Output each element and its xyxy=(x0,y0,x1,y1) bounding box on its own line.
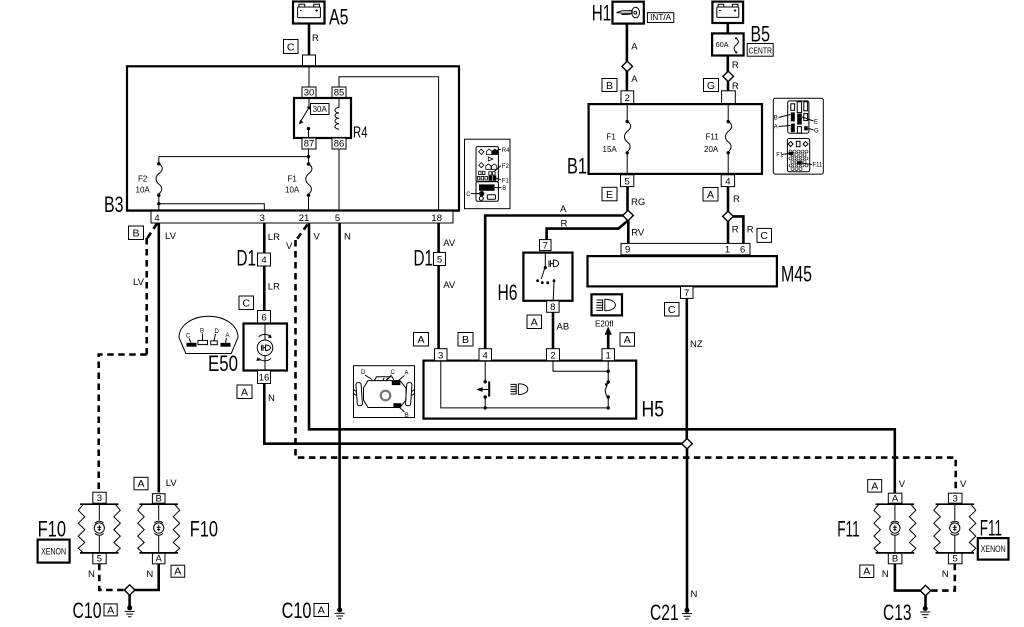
wire N from E50 to splice xyxy=(264,384,682,444)
svg-text:3: 3 xyxy=(97,493,102,504)
svg-text:A: A xyxy=(892,493,899,504)
svg-text:C: C xyxy=(242,298,250,310)
wire AV from D1 to H5 pin 3 xyxy=(439,266,456,349)
svg-text:9: 9 xyxy=(625,244,630,255)
connector D1 pin 4 xyxy=(237,246,271,271)
svg-text:V: V xyxy=(314,232,321,243)
ignition switch H1 xyxy=(592,1,644,26)
connector B on A xyxy=(602,79,617,92)
svg-text:1: 1 xyxy=(606,350,611,361)
fuse F1 10A xyxy=(285,162,312,210)
svg-text:A: A xyxy=(624,334,631,346)
wire R from splice 2 to M45 pin 6 xyxy=(733,216,754,243)
headlamp leveling actuator E50 xyxy=(208,324,287,377)
ground C10 (lamps) xyxy=(73,595,135,623)
svg-text:C: C xyxy=(760,230,768,242)
svg-text:B1: B1 xyxy=(567,154,587,179)
svg-text:30A: 30A xyxy=(313,105,328,114)
wire: F2 to B3 pins 4 and 3 xyxy=(157,195,264,210)
fog lamp symbol E20fl with arrow xyxy=(592,294,623,328)
svg-text:V: V xyxy=(286,241,293,252)
svg-text:5: 5 xyxy=(97,554,102,565)
B1 pin 2 xyxy=(621,91,634,104)
svg-text:LR: LR xyxy=(268,282,280,293)
svg-text:R: R xyxy=(732,225,739,236)
svg-text:A: A xyxy=(417,334,424,346)
svg-text:A: A xyxy=(137,478,144,490)
fog lamp F11 xenon: pin 5 xyxy=(948,553,962,564)
svg-text:E50: E50 xyxy=(208,351,238,376)
wire R from diamond to B1 xyxy=(728,81,739,92)
svg-text:R4: R4 xyxy=(502,148,510,154)
svg-text:2: 2 xyxy=(550,350,555,361)
svg-text:R: R xyxy=(747,225,754,236)
svg-text:D1: D1 xyxy=(237,246,257,271)
B1 pin 4 xyxy=(721,175,734,188)
svg-text:16: 16 xyxy=(259,373,270,384)
connector B on wire A xyxy=(458,333,473,347)
connector A on N at F10 xyxy=(171,565,185,578)
relay pin 85 xyxy=(332,87,346,99)
splice diamond 3 (N junction) xyxy=(682,439,693,449)
battery B5 xyxy=(712,2,743,23)
wire LV solid from pin 4 to lamp F10 xyxy=(158,223,161,493)
svg-text:C: C xyxy=(466,192,471,198)
connector C on LR xyxy=(239,296,254,310)
svg-text:A: A xyxy=(531,317,538,329)
fuse box 60A (B5) xyxy=(712,22,770,56)
XENON label box (F11) xyxy=(978,538,1009,560)
fog lamp F11 xenon: pin 3 xyxy=(948,493,962,504)
relay coil xyxy=(335,98,339,129)
junction box B3 xyxy=(104,66,459,217)
svg-text:B: B xyxy=(462,334,469,346)
svg-text:XENON: XENON xyxy=(41,547,66,557)
arrow wire from H5 pin 1 to E20fl xyxy=(605,327,612,349)
svg-text:B: B xyxy=(892,554,898,565)
svg-text:N: N xyxy=(268,393,275,404)
H6 pin 8 xyxy=(547,301,560,313)
H5 interior: pin3 to bottom rail xyxy=(441,361,608,408)
svg-text:CENTR: CENTR xyxy=(748,45,772,55)
svg-text:N: N xyxy=(146,569,153,580)
wire R from splice to H6 pin 7 xyxy=(547,219,628,240)
XENON label box (F10) xyxy=(38,540,70,563)
svg-text:4: 4 xyxy=(261,255,266,266)
svg-text:4: 4 xyxy=(154,213,159,224)
svg-text:F11: F11 xyxy=(706,133,720,142)
wire label LV xyxy=(165,231,177,242)
svg-text:A: A xyxy=(174,566,181,578)
wire A from diamond to B1 pin 2 xyxy=(627,71,638,92)
svg-text:N: N xyxy=(344,232,351,243)
svg-text:B: B xyxy=(502,186,506,192)
svg-text:D1: D1 xyxy=(414,246,434,271)
wire label V at F11 xenon xyxy=(960,479,967,490)
svg-text:8: 8 xyxy=(550,302,555,313)
svg-text:H1: H1 xyxy=(592,1,612,26)
svg-text:6: 6 xyxy=(740,244,745,255)
connector A on AV xyxy=(414,333,429,347)
fuse F11 20A in B1 xyxy=(704,104,732,175)
fog lamp F11: pin A xyxy=(888,493,902,504)
wire V solid from pin 21 to lamp F11 xyxy=(309,223,895,493)
svg-text:6: 6 xyxy=(261,313,266,324)
wire AV from pin 18 to D1 xyxy=(439,223,456,253)
svg-text:H5: H5 xyxy=(642,397,665,422)
splice diamond (A/R/RG/RV) xyxy=(623,210,634,220)
svg-text:R: R xyxy=(732,60,739,71)
svg-text:N: N xyxy=(88,569,95,580)
wire N from splice 3 to ground C21 xyxy=(687,449,698,609)
svg-text:R: R xyxy=(312,33,319,44)
svg-text:LV: LV xyxy=(133,277,145,288)
svg-text:A: A xyxy=(560,204,567,215)
ground C21 xyxy=(650,600,692,625)
wire: relay pin 85 up and over to pin 18 xyxy=(339,77,439,211)
svg-text:3: 3 xyxy=(438,350,443,361)
splice diamond at ground C13 xyxy=(920,585,931,595)
wire from battery B5 to fuse xyxy=(726,23,729,34)
svg-text:R: R xyxy=(561,219,568,230)
connector A on V at F11 xyxy=(868,480,882,493)
wire label LV (dashed branch) xyxy=(133,277,145,288)
connector A on LV at F10 xyxy=(134,477,148,490)
svg-text:3: 3 xyxy=(260,213,265,224)
svg-text:18: 18 xyxy=(431,213,442,224)
relay pin 87 xyxy=(302,138,316,150)
H5 connector face illustration xyxy=(353,366,415,419)
svg-text:A: A xyxy=(774,125,778,131)
svg-text:C: C xyxy=(668,304,676,316)
connector A at ground C10 right xyxy=(314,604,329,617)
fog lamp F11 xenon xyxy=(934,504,1002,553)
svg-text:F11: F11 xyxy=(837,517,860,542)
svg-text:A: A xyxy=(107,604,114,616)
B3 bottom connector strip with pins 4 3 21 5 18 xyxy=(127,211,459,225)
wire R from splice 2 to M45 pin 1 xyxy=(728,221,739,243)
connector E on RG xyxy=(602,187,617,201)
connector A below E50 xyxy=(237,385,252,399)
svg-text:R4: R4 xyxy=(353,125,368,142)
svg-text:N: N xyxy=(882,569,889,580)
relay pin 30 xyxy=(302,87,316,99)
wire R from battery A5 to B3 xyxy=(308,23,311,56)
B1 connector pinout illustration xyxy=(773,98,823,174)
svg-text:G: G xyxy=(707,80,715,92)
svg-text:86: 86 xyxy=(334,139,345,150)
B1 pin 5 xyxy=(621,175,634,188)
30A label in R4 xyxy=(311,104,330,115)
svg-text:G: G xyxy=(814,129,819,135)
splice diamond 2 (R to M45 pins 1,6) xyxy=(723,211,734,221)
svg-text:10A: 10A xyxy=(136,186,151,195)
wire label V at F11 xyxy=(899,479,906,490)
fuse F1 15A in B1 xyxy=(603,104,631,175)
svg-text:F2: F2 xyxy=(502,164,510,170)
svg-text:R: R xyxy=(733,194,740,205)
svg-text:5: 5 xyxy=(624,176,629,187)
wire LR from D1 to E50 pin 6 xyxy=(264,266,280,311)
wire V dashed from pin 21 to xenon lamp F11 xyxy=(286,225,956,494)
wire N dashed from F11 xenon to ground C13 xyxy=(930,564,955,591)
svg-text:F1: F1 xyxy=(288,175,298,184)
ground C13 xyxy=(883,596,930,625)
svg-text:LR: LR xyxy=(268,232,280,243)
svg-text:7: 7 xyxy=(684,288,689,299)
fog lamp F10 xyxy=(138,504,218,553)
svg-text:10A: 10A xyxy=(285,186,300,195)
svg-text:5: 5 xyxy=(335,213,340,224)
wire RG from B1 pin 5 to splice xyxy=(628,187,646,211)
relay R4 xyxy=(294,98,368,142)
svg-text:C10: C10 xyxy=(282,598,312,623)
svg-text:2: 2 xyxy=(625,93,630,104)
svg-text:B3: B3 xyxy=(104,192,124,217)
svg-text:F1: F1 xyxy=(502,178,510,184)
H5 pin 4 xyxy=(479,349,492,362)
svg-text:B: B xyxy=(405,413,409,419)
wire R from fuse to diamond xyxy=(728,56,739,73)
wire NZ from M45 pin 7 to splice 3 xyxy=(687,298,703,439)
H6 pin 7 xyxy=(540,240,552,252)
H5 pin 3 xyxy=(435,349,448,362)
H5 pin 2 xyxy=(547,349,560,362)
connector C (battery feed) xyxy=(284,40,299,54)
E50 pin 16 xyxy=(258,371,271,384)
fuse box B1 xyxy=(567,104,762,178)
svg-text:M45: M45 xyxy=(781,262,812,287)
INT/A label box xyxy=(647,13,673,23)
svg-text:RG: RG xyxy=(631,197,645,208)
body computer M45 xyxy=(588,256,813,286)
svg-text:F11: F11 xyxy=(813,163,824,169)
svg-text:A: A xyxy=(631,42,638,53)
wire R from B1 pin 4 to splice 2 xyxy=(728,187,740,212)
svg-text:A: A xyxy=(241,387,248,399)
svg-text:4: 4 xyxy=(725,176,730,187)
svg-text:5: 5 xyxy=(953,554,958,565)
svg-text:B5: B5 xyxy=(751,22,771,47)
fog lamp F10 xenon xyxy=(38,504,121,553)
svg-text:E: E xyxy=(606,189,613,201)
connector A on N at F11 xyxy=(860,565,874,578)
fog lamp F11: pin B xyxy=(888,553,902,564)
svg-text:AV: AV xyxy=(443,280,456,291)
svg-text:INT/A: INT/A xyxy=(650,13,671,22)
battery A5 xyxy=(293,2,349,30)
ground C10 (pin 5 N wire) xyxy=(282,598,345,623)
svg-text:4: 4 xyxy=(483,350,488,361)
B1 entry pin box xyxy=(722,91,736,104)
svg-text:87: 87 xyxy=(304,139,315,150)
svg-text:A: A xyxy=(863,566,870,578)
svg-text:F10: F10 xyxy=(38,517,66,542)
svg-text:E20fl: E20fl xyxy=(595,320,613,329)
fog lamp F10: pin A xyxy=(152,553,165,564)
fog lamp F10 xenon: pin 3 xyxy=(93,492,106,504)
svg-text:A: A xyxy=(707,189,714,201)
connector A on arrow wire xyxy=(620,333,635,347)
svg-text:N: N xyxy=(942,569,949,580)
svg-text:N: N xyxy=(691,589,698,600)
svg-text:A: A xyxy=(156,554,163,565)
svg-text:C13: C13 xyxy=(883,600,912,625)
fog lamp F10 xenon: pin 5 xyxy=(93,553,106,564)
svg-text:LV: LV xyxy=(166,478,178,489)
wire LV dashed branch to xenon lamp F10 xyxy=(99,224,157,493)
connector C on NZ xyxy=(665,303,680,317)
svg-text:1: 1 xyxy=(725,244,730,255)
M45 top connector strip pins 9 1 6 xyxy=(621,243,750,255)
connector D1 pin 5 xyxy=(414,246,446,271)
CENTR label box xyxy=(747,44,773,57)
fog lamp switch unit H5 xyxy=(424,361,665,422)
svg-text:B: B xyxy=(132,228,139,240)
wire A from H1 to diamond xyxy=(627,24,638,62)
relay pin 86 xyxy=(332,138,346,150)
svg-text:7: 7 xyxy=(543,240,548,251)
svg-text:E: E xyxy=(814,120,818,126)
wire: pin 87 to fuses F1/F2 xyxy=(159,149,310,164)
splice diamond at ground C10 xyxy=(124,585,135,595)
svg-text:A: A xyxy=(871,480,878,492)
svg-text:XENON: XENON xyxy=(981,544,1006,554)
connector A at ground C10 xyxy=(104,604,117,617)
connector A on R xyxy=(703,188,718,202)
fuse F2 10A xyxy=(136,162,163,197)
svg-text:B: B xyxy=(774,116,778,122)
svg-text:LV: LV xyxy=(165,231,177,242)
svg-text:60A: 60A xyxy=(716,40,729,49)
svg-text:20A: 20A xyxy=(704,145,719,154)
svg-text:F1: F1 xyxy=(776,153,784,159)
fog lamp F11 xyxy=(837,504,916,553)
connector C on R xyxy=(757,228,772,242)
wire LR from pin 3 to D1 xyxy=(264,223,280,253)
svg-text:V: V xyxy=(960,479,967,490)
svg-text:C21: C21 xyxy=(650,600,679,625)
fog lamp F10: pin B xyxy=(152,494,165,505)
svg-text:3: 3 xyxy=(953,493,958,504)
svg-text:F2: F2 xyxy=(138,175,148,184)
wire label R xyxy=(312,33,319,44)
svg-text:RV: RV xyxy=(631,228,645,239)
splice diamond on R xyxy=(723,71,734,81)
wire A from splice to H5 pin 4 xyxy=(485,204,623,349)
svg-text:A: A xyxy=(318,605,325,617)
wire: B3 entry to relay pin 30 xyxy=(308,67,310,88)
svg-text:A5: A5 xyxy=(329,5,349,30)
E50 pin 6 xyxy=(258,311,271,324)
wire AB from H6 to H5 pin 2 xyxy=(553,312,569,348)
H5 interior: pin4 switch xyxy=(476,361,490,410)
wire label LV at F10 xyxy=(166,478,178,489)
svg-text:C: C xyxy=(287,42,295,54)
svg-text:B: B xyxy=(606,80,613,92)
svg-text:C10: C10 xyxy=(73,598,102,623)
B3 entry pin box xyxy=(303,55,316,67)
connector A on AB xyxy=(527,315,542,329)
svg-text:21: 21 xyxy=(299,213,310,224)
H5 interior: fog lamp icon xyxy=(510,384,527,395)
M45 pin 7 xyxy=(681,286,694,299)
connector G on R xyxy=(704,79,719,92)
svg-text:H6: H6 xyxy=(498,280,518,305)
svg-text:NZ: NZ xyxy=(690,339,703,350)
B3 connector pinout illustration xyxy=(465,139,511,209)
wire N from pin 5 to ground C10 xyxy=(340,223,351,608)
svg-text:F11: F11 xyxy=(980,516,1002,541)
svg-text:5: 5 xyxy=(437,255,442,266)
H5 interior: pin2/pin1 switch xyxy=(553,361,610,410)
svg-text:F1: F1 xyxy=(607,133,617,142)
svg-text:B: B xyxy=(156,494,162,505)
svg-text:A: A xyxy=(405,371,409,377)
splice diamond on A xyxy=(622,61,633,71)
svg-text:AB: AB xyxy=(557,322,570,333)
H5 pin 1 xyxy=(602,349,615,362)
svg-text:V: V xyxy=(899,479,906,490)
svg-text:F10: F10 xyxy=(190,517,218,542)
headlamp leveling switch H6 xyxy=(498,253,573,305)
connector B on LV xyxy=(129,226,144,240)
svg-text:C: C xyxy=(186,334,191,340)
E50 connector face (oval, pins C B D A) xyxy=(179,316,238,353)
wire RV from splice to M45 pin 9 xyxy=(628,221,645,244)
svg-text:A: A xyxy=(631,74,638,85)
wire N from F10 to ground xyxy=(134,564,159,590)
wire: pin 86 down to B3 pin 5 xyxy=(338,149,340,211)
wire N dashed from F10 xenon to ground xyxy=(88,564,125,590)
svg-text:15A: 15A xyxy=(603,145,618,154)
wire N from F11 to ground C13 xyxy=(882,564,921,591)
svg-text:AV: AV xyxy=(443,238,456,249)
relay switch contact xyxy=(299,98,311,138)
